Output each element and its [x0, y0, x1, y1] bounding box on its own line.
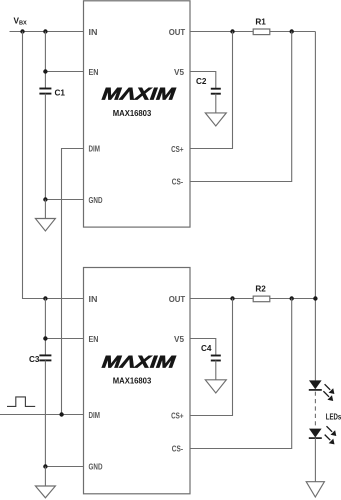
junction at U1 GND — [43, 197, 47, 201]
PWM pulse source symbol — [7, 397, 35, 407]
svg-text:LEDs: LEDs — [326, 413, 341, 422]
svg-text:MΛXIM: MΛXIM — [101, 85, 177, 104]
capacitor C2 — [211, 88, 221, 90]
dashed wire between LEDs — [314, 392, 316, 428]
resistor R2 — [253, 296, 270, 302]
svg-text:C4: C4 — [201, 344, 212, 353]
junction at U2 GND — [43, 464, 47, 468]
svg-text:OUT: OUT — [169, 27, 186, 37]
svg-text:C1: C1 — [55, 88, 66, 97]
svg-text:R1: R1 — [255, 18, 266, 27]
capacitor C3 — [39, 354, 51, 356]
svg-text:C3: C3 — [29, 355, 40, 364]
junction U2 IN / C3 branch — [43, 296, 47, 300]
wire LED string feed (right rail) — [314, 32, 316, 381]
svg-text:CS+: CS+ — [171, 410, 183, 420]
junction on IN wire at C1 branch — [43, 29, 47, 33]
wire U1 CS+ sense — [190, 32, 233, 149]
junction U1 OUT / CS+ sense — [230, 29, 234, 33]
wire C1 branch vertical (IN to C1) — [44, 32, 46, 89]
ground (top left) — [35, 219, 55, 232]
wire GND to ground symbol — [44, 200, 46, 219]
ground (C2) — [205, 113, 226, 126]
wire DIM input to U2 — [0, 414, 84, 416]
resistor R1 — [253, 29, 270, 35]
wire GND to ground symbol — [44, 467, 46, 487]
ground (C4) — [205, 380, 226, 393]
LED D1 — [309, 380, 335, 401]
wire LED cathode to ground — [314, 438, 316, 482]
junction DIM wire / U1 DIM branch — [59, 412, 63, 416]
svg-text:C2: C2 — [196, 77, 207, 86]
svg-text:GND: GND — [89, 195, 103, 205]
capacitor C4 — [211, 355, 221, 357]
svg-text:CS-: CS- — [172, 443, 183, 453]
wire C4 to ground — [215, 361, 217, 380]
svg-text:DIM: DIM — [89, 410, 101, 420]
svg-text:MAX16803: MAX16803 — [113, 109, 152, 118]
junction U2 OUT / CS+ sense — [230, 296, 234, 300]
wire left rail down to U2 IN — [23, 32, 84, 299]
svg-text:V5: V5 — [174, 67, 184, 77]
wire GND to U2 — [45, 466, 83, 468]
svg-text:IN: IN — [89, 294, 98, 304]
LED D2 — [309, 426, 337, 444]
wire C1 to GND line — [44, 94, 46, 200]
wire U1 V5 to C2 — [190, 72, 216, 89]
junction R1 / CS- sense — [290, 29, 294, 33]
wire EN to U2 — [45, 338, 83, 340]
wire C2 to ground — [215, 94, 217, 113]
svg-text:DIM: DIM — [89, 143, 101, 153]
svg-text:EN: EN — [89, 67, 99, 77]
svg-text:CS-: CS- — [172, 176, 183, 186]
U2 MAXIM logo — [101, 353, 177, 372]
ground (bottom left) — [35, 486, 55, 498]
wire C3 to GND line — [44, 360, 46, 466]
junction at U1 EN — [43, 69, 47, 73]
wire U1 DIM down to U2 DIM — [62, 149, 84, 415]
wire U2 OUT to LED feed — [190, 298, 315, 300]
wire EN to U1 — [45, 71, 83, 73]
U1 MAXIM logo — [101, 85, 177, 104]
wire U2 CS+ sense — [190, 299, 233, 416]
IC U2 MAX16803 (bottom) — [84, 268, 191, 494]
wire U2 CS- sense — [190, 299, 292, 449]
junction U2 OUT / LED string — [313, 296, 317, 300]
ground (LED string) — [306, 482, 324, 497]
svg-text:GND: GND — [89, 462, 103, 472]
wire U2 V5 to C4 — [190, 339, 216, 356]
junction R2 / CS- sense — [290, 296, 294, 300]
wire C3 branch vertical (IN to C3) — [44, 299, 46, 356]
svg-text:MAX16803: MAX16803 — [113, 377, 152, 386]
wire GND to U1 — [45, 199, 83, 201]
junction at U2 EN — [43, 336, 47, 340]
capacitor C1 — [39, 88, 51, 90]
IC U1 MAX16803 (top) — [84, 1, 191, 227]
svg-text:R2: R2 — [255, 284, 266, 293]
svg-text:V5: V5 — [174, 334, 184, 344]
svg-text:IN: IN — [89, 27, 98, 37]
svg-text:CS+: CS+ — [171, 144, 183, 154]
wire VBX to U1 IN — [10, 31, 84, 33]
wire U1 CS- sense — [190, 32, 292, 182]
svg-text:OUT: OUT — [169, 294, 186, 304]
svg-text:EN: EN — [89, 334, 99, 344]
svg-text:VBX: VBX — [14, 17, 28, 27]
junction on IN wire at left rail — [20, 29, 24, 33]
wire U1 OUT to LED feed — [190, 31, 315, 33]
